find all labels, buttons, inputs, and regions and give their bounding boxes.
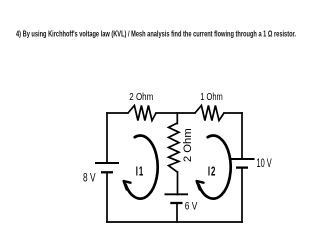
wire right vertical upper — [241, 113, 243, 159]
svg-text:I2: I2 — [208, 165, 216, 180]
wire right vertical lower — [241, 168, 243, 223]
resistor R1 2 Ohm (top-left) — [128, 106, 156, 121]
battery V2 10V short plate — [236, 166, 248, 168]
mesh arrow I2 arc — [199, 136, 231, 199]
svg-text:I1: I1 — [136, 165, 144, 180]
svg-text:2 Ohm: 2 Ohm — [182, 128, 194, 162]
battery V1 8V short plate — [101, 171, 113, 173]
wire top-left segment — [107, 112, 128, 114]
mesh arrow I1 arc — [126, 136, 158, 199]
svg-text:4) By using Kirchhoff's voltag: 4) By using Kirchhoff's voltage law (KVL… — [16, 29, 296, 39]
mesh arrow I2 arrowhead — [197, 181, 204, 190]
svg-text:10 V: 10 V — [257, 158, 272, 170]
svg-text:1 Ohm: 1 Ohm — [200, 92, 223, 103]
mesh arrow I1 arrowhead — [124, 181, 131, 190]
battery V2 10V long plate — [231, 158, 255, 160]
svg-text:6 V: 6 V — [185, 201, 198, 213]
resistor R3 2 Ohm (middle vertical) — [169, 123, 180, 172]
wire middle between resistor and battery — [177, 172, 179, 195]
wire middle top stub — [176, 113, 178, 124]
battery V3 6V short plate — [170, 202, 182, 204]
wire left vertical lower — [106, 172, 108, 222]
wire top-right segment — [224, 112, 242, 114]
wire bottom — [107, 221, 242, 223]
wire middle bottom stub — [176, 203, 178, 222]
wire top-middle segment — [156, 112, 195, 114]
resistor R2 1 Ohm (top-right) — [195, 106, 224, 121]
battery V3 6V long plate — [165, 193, 189, 195]
svg-text:2 Ohm: 2 Ohm — [129, 92, 153, 103]
svg-text:8 V: 8 V — [83, 171, 96, 185]
wire left vertical upper — [106, 113, 108, 163]
battery V1 8V long plate — [95, 162, 119, 164]
